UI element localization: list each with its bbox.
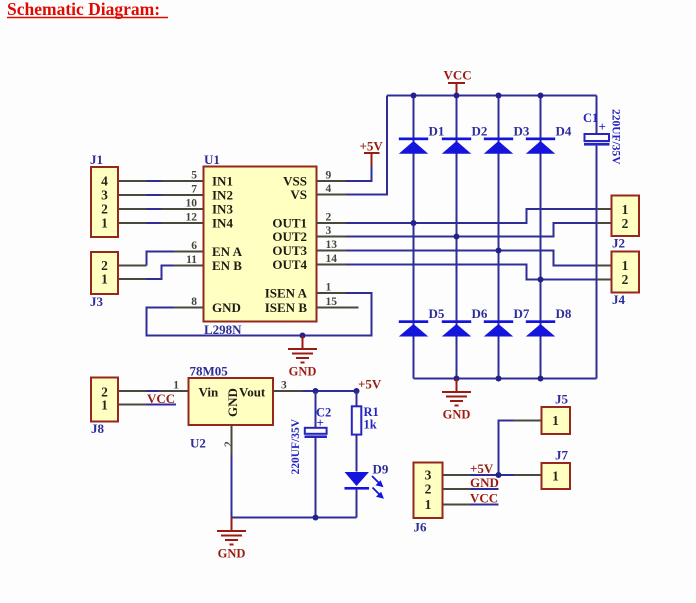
svg-text:C1: C1 [583,111,598,125]
junction dot OUT4/D4 [538,277,544,283]
svg-text:D8: D8 [556,306,572,321]
junction dot top rail D4 [538,93,544,99]
+5V power symbol at U1.VSS [316,139,383,182]
svg-text:ISEN A: ISEN A [265,286,308,301]
ground symbol below U1 [288,336,317,379]
svg-text:J8: J8 [91,421,105,436]
svg-text:2: 2 [622,272,629,287]
wire net J3.2 to U1.EN A [119,252,204,266]
svg-text:1: 1 [326,282,332,294]
wire net U1.VS to top rail [316,96,387,195]
svg-text:Vout: Vout [239,385,266,400]
junction dot top rail D2/VCC [454,93,460,99]
svg-text:2: 2 [326,212,332,224]
wire net U1.OUT2 to J2.2 [316,223,612,237]
resistor R1 [352,391,379,472]
svg-text:1: 1 [622,202,629,217]
svg-text:+5V: +5V [470,461,494,476]
svg-text:VCC: VCC [470,491,498,506]
svg-text:3: 3 [425,468,432,483]
svg-text:220UF/35V: 220UF/35V [290,418,302,474]
regulator U2 78M05 [189,364,274,451]
svg-text:2: 2 [425,482,432,497]
svg-text:1: 1 [173,380,179,392]
diode D6 [442,306,488,337]
wire net J1.4 to U1.IN1 [119,180,204,182]
svg-text:Schematic Diagram:: Schematic Diagram: [7,0,160,19]
wire net J6.1 VCC stub [443,504,499,506]
capacitor C2 [290,391,331,518]
U2 GND pin stub [231,425,233,455]
wire net J5.1 to +5V node [499,421,542,476]
svg-text:IN3: IN3 [212,202,233,217]
ground symbol below U2 [217,518,246,561]
svg-text:2: 2 [223,441,235,447]
connector J3 [90,252,118,309]
svg-text:J7: J7 [555,448,569,463]
svg-text:Vin: Vin [199,385,220,400]
svg-text:IN2: IN2 [212,188,233,203]
svg-text:6: 6 [191,240,197,252]
svg-text:220UF/35V: 220UF/35V [610,109,622,165]
diode D5 [399,306,445,337]
svg-text:8: 8 [191,296,197,308]
diode D2 [442,124,488,154]
connector J5 [542,392,571,435]
svg-text:1: 1 [552,413,559,428]
junction dot C2 ground [313,515,319,521]
wire net J6.2 GND stub [443,488,499,490]
svg-text:D3: D3 [514,124,530,139]
svg-text:J3: J3 [90,294,104,309]
wire net J7.1 to J6.3 [443,474,542,476]
svg-text:4: 4 [326,183,332,195]
svg-text:IN4: IN4 [212,216,233,231]
wire net J1.1 to U1.IN4 [119,222,204,224]
svg-text:12: 12 [186,212,198,224]
wire net U1.GND/ISEN A ground loop [147,293,372,336]
svg-text:+5V: +5V [358,377,382,392]
wire net U1.OUT3 to J4.1 [316,251,612,266]
diode D8 [526,306,572,337]
wire bottom rail U2 ground net [232,455,357,518]
diode D4 [526,124,572,154]
svg-text:GND: GND [289,365,317,379]
svg-text:1k: 1k [364,418,377,432]
svg-text:EN B: EN B [212,258,242,273]
wire column D2/D6 vertical net [456,96,458,379]
junction dot OUT1/D1 [411,220,417,226]
svg-text:GND: GND [470,475,499,490]
svg-text:D5: D5 [429,306,445,321]
svg-text:1: 1 [101,216,108,231]
svg-text:OUT4: OUT4 [272,257,307,272]
wire net U1.OUT4 to J4.2 [316,265,612,280]
svg-text:14: 14 [326,253,338,265]
connector J8 [91,378,118,437]
LED D9 [345,462,389,518]
diode D7 [484,306,530,337]
svg-text:78M05: 78M05 [190,364,229,379]
connector J1 [90,152,118,237]
svg-text:D2: D2 [472,124,488,139]
svg-text:1: 1 [622,258,629,273]
junction dot bottom rail D6 [454,376,460,382]
diode D3 [484,124,530,154]
svg-text:J5: J5 [555,392,569,407]
svg-text:D9: D9 [373,462,389,477]
wire bottom ground rail [414,378,597,380]
svg-text:1: 1 [425,497,432,512]
svg-text:GND: GND [212,300,241,315]
title Schematic Diagram [7,0,168,19]
junction dot OUT2/D2 [454,234,460,240]
wire net U1.OUT1 to J2.1 [316,209,612,223]
junction dot U1 ground loop [300,333,306,339]
svg-text:2: 2 [622,216,629,231]
svg-text:ISEN B: ISEN B [265,300,308,315]
svg-text:D7: D7 [514,306,530,321]
svg-text:11: 11 [186,254,197,266]
junction dot top rail D3 [496,93,502,99]
connector J6 [414,463,443,535]
svg-text:OUT2: OUT2 [272,229,307,244]
svg-text:IN1: IN1 [212,174,233,189]
svg-text:GND: GND [443,408,471,422]
wire net J1.3 to U1.IN2 [119,194,204,196]
VCC power symbol [444,68,472,96]
svg-text:GND: GND [218,547,246,561]
svg-text:3: 3 [281,380,287,392]
wire net J8.1 VCC stub [119,404,177,406]
svg-text:D6: D6 [472,306,488,321]
wire column D4/D8 vertical net [540,96,542,379]
svg-text:3: 3 [101,188,108,203]
wire net J8.2 to U2.Vin [119,390,189,392]
wire column D3/D7 vertical net [498,96,500,379]
svg-text:5: 5 [191,170,197,182]
svg-text:J4: J4 [612,292,626,307]
svg-text:+5V: +5V [360,139,384,154]
connector J4 [612,252,640,308]
svg-text:3: 3 [326,225,332,237]
ground symbol below diode rail [442,379,471,422]
svg-text:13: 13 [326,239,338,251]
svg-text:2: 2 [101,202,108,217]
wire column D1/D5 vertical net [413,96,415,379]
svg-text:1: 1 [552,469,559,484]
svg-text:D1: D1 [429,124,445,139]
svg-text:+: + [599,119,606,134]
wire net J3.1 to U1.EN B [119,266,204,280]
capacitor C1 [583,96,622,379]
svg-text:OUT3: OUT3 [272,243,307,258]
junction dot bottom rail D8 [538,376,544,382]
svg-text:10: 10 [186,198,198,210]
junction dot Vout/R1 [354,388,360,394]
svg-text:7: 7 [191,184,197,196]
op-amp U1 L298N body [204,152,317,337]
wire net U2.Vout to C2/R1 [273,390,357,392]
svg-text:9: 9 [326,170,332,182]
svg-text:VCC: VCC [444,68,472,83]
connector J2 [612,196,640,251]
connector J7 [542,448,571,490]
svg-text:1: 1 [101,272,108,287]
junction dot bottom rail D7 [496,376,502,382]
wire net J1.2 to U1.IN3 [119,208,204,210]
svg-text:D4: D4 [556,124,572,139]
svg-text:J2: J2 [612,236,625,251]
svg-text:15: 15 [326,296,338,308]
junction dot top rail D1 [411,93,417,99]
wire top VCC rail [387,95,597,97]
svg-text:J1: J1 [90,152,103,167]
U1.ISEN B pin stub [316,307,359,309]
svg-text:J6: J6 [414,520,428,535]
svg-text:GND: GND [225,388,240,417]
junction dot J5/J7 [496,472,502,478]
svg-text:U1: U1 [204,152,220,167]
svg-text:4: 4 [101,174,108,189]
svg-text:U2: U2 [190,436,206,451]
svg-text:VS: VS [290,187,307,202]
junction dot OUT3/D3 [496,248,502,254]
svg-text:EN A: EN A [212,244,243,259]
junction dot Vout/C2 [313,388,319,394]
svg-text:VCC: VCC [147,391,175,406]
svg-text:1: 1 [101,398,108,413]
diode D1 [399,124,445,154]
